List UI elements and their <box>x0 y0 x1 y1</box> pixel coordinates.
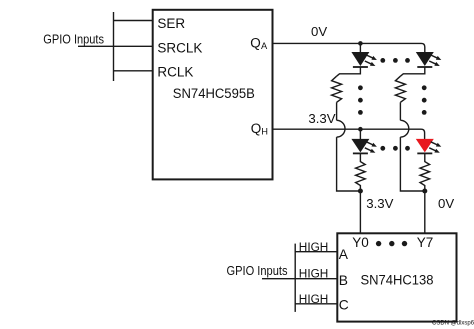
wire D2 cathode to R2 <box>400 67 424 77</box>
svg-text:GPIO Inputs: GPIO Inputs <box>227 263 288 278</box>
IC U2 SN74HC138 decoder box <box>337 233 456 321</box>
wire A pin lead <box>295 251 337 253</box>
node junction QA-column0 <box>358 41 363 46</box>
svg-text:SN74HC595B: SN74HC595B <box>173 86 255 101</box>
svg-text:Q: Q <box>250 35 261 50</box>
IC U1 SN74HC595B shift register box <box>153 10 273 180</box>
svg-text:0V: 0V <box>311 24 327 39</box>
node ellipsis dots Y0..Y7 <box>376 241 407 246</box>
svg-text:Y0: Y0 <box>352 235 369 250</box>
svg-text:H: H <box>261 127 268 137</box>
node ellipsis dots column7 vertical <box>422 85 427 114</box>
svg-text:HIGH: HIGH <box>299 292 329 306</box>
svg-text:3.3V: 3.3V <box>366 196 393 211</box>
node junction Y7 <box>422 189 427 194</box>
svg-text:HIGH: HIGH <box>299 267 329 281</box>
svg-text:A: A <box>339 247 349 262</box>
svg-text:B: B <box>339 273 348 288</box>
wire column7 rail lower <box>400 137 424 191</box>
wire SRCLK pin lead / GPIO Inputs lead <box>78 45 153 47</box>
node junction Y0 <box>358 189 363 194</box>
wire D1 cathode to R1 <box>337 67 361 77</box>
resistor R2 <box>395 76 405 102</box>
svg-text:C: C <box>339 298 349 313</box>
wire LED D1 anode lead <box>359 43 361 52</box>
svg-text:Y7: Y7 <box>417 235 434 250</box>
wire B pin lead / GPIO Inputs lead <box>262 278 337 280</box>
wire input bus vertical (top) <box>113 12 115 81</box>
svg-text:A: A <box>261 41 268 51</box>
svg-text:0V: 0V <box>438 196 454 211</box>
LED D2 (top-right) <box>416 52 442 68</box>
LED D3 (bottom-left) <box>351 139 377 155</box>
svg-text:CSDN @dlxsp66: CSDN @dlxsp66 <box>432 320 474 326</box>
wire Y0 lead <box>359 191 361 233</box>
svg-text:SER: SER <box>157 16 185 31</box>
wire column0 rail lower <box>337 137 361 191</box>
svg-text:SRCLK: SRCLK <box>157 41 202 56</box>
node ellipsis dots column0 vertical <box>358 85 363 114</box>
LED D1 (top-left) <box>351 52 377 68</box>
wire QA 0V net <box>273 43 425 52</box>
wire LED D3 anode lead <box>359 129 361 139</box>
wire input bus vertical (bottom) <box>294 244 296 312</box>
svg-text:GPIO Inputs: GPIO Inputs <box>43 32 104 47</box>
svg-text:SN74HC138: SN74HC138 <box>361 272 434 287</box>
wire hop over QH net (right) <box>400 120 408 137</box>
svg-text:3.3V: 3.3V <box>308 111 335 126</box>
resistor R1 <box>332 76 342 102</box>
svg-text:RCLK: RCLK <box>157 65 193 80</box>
node ellipsis dots top row <box>380 58 410 63</box>
resistor R4 <box>420 154 430 191</box>
wire RCLK pin lead <box>114 70 153 72</box>
wire column0 rail upper <box>336 102 338 120</box>
wire SER pin lead <box>114 20 153 22</box>
svg-text:Q: Q <box>251 121 262 136</box>
node junction QH-column0 <box>358 127 363 132</box>
node ellipsis dots second row <box>380 146 410 151</box>
LED D4 (bottom-right, lit red) <box>416 139 442 155</box>
wire column7 rail upper <box>399 102 401 120</box>
wire C pin lead <box>295 303 337 305</box>
wire hop over QH net (left) <box>337 120 345 137</box>
wire QH 3.3V net <box>273 129 425 139</box>
wire Y7 lead <box>424 191 426 233</box>
resistor R3 <box>356 154 366 191</box>
svg-text:HIGH: HIGH <box>299 240 329 254</box>
